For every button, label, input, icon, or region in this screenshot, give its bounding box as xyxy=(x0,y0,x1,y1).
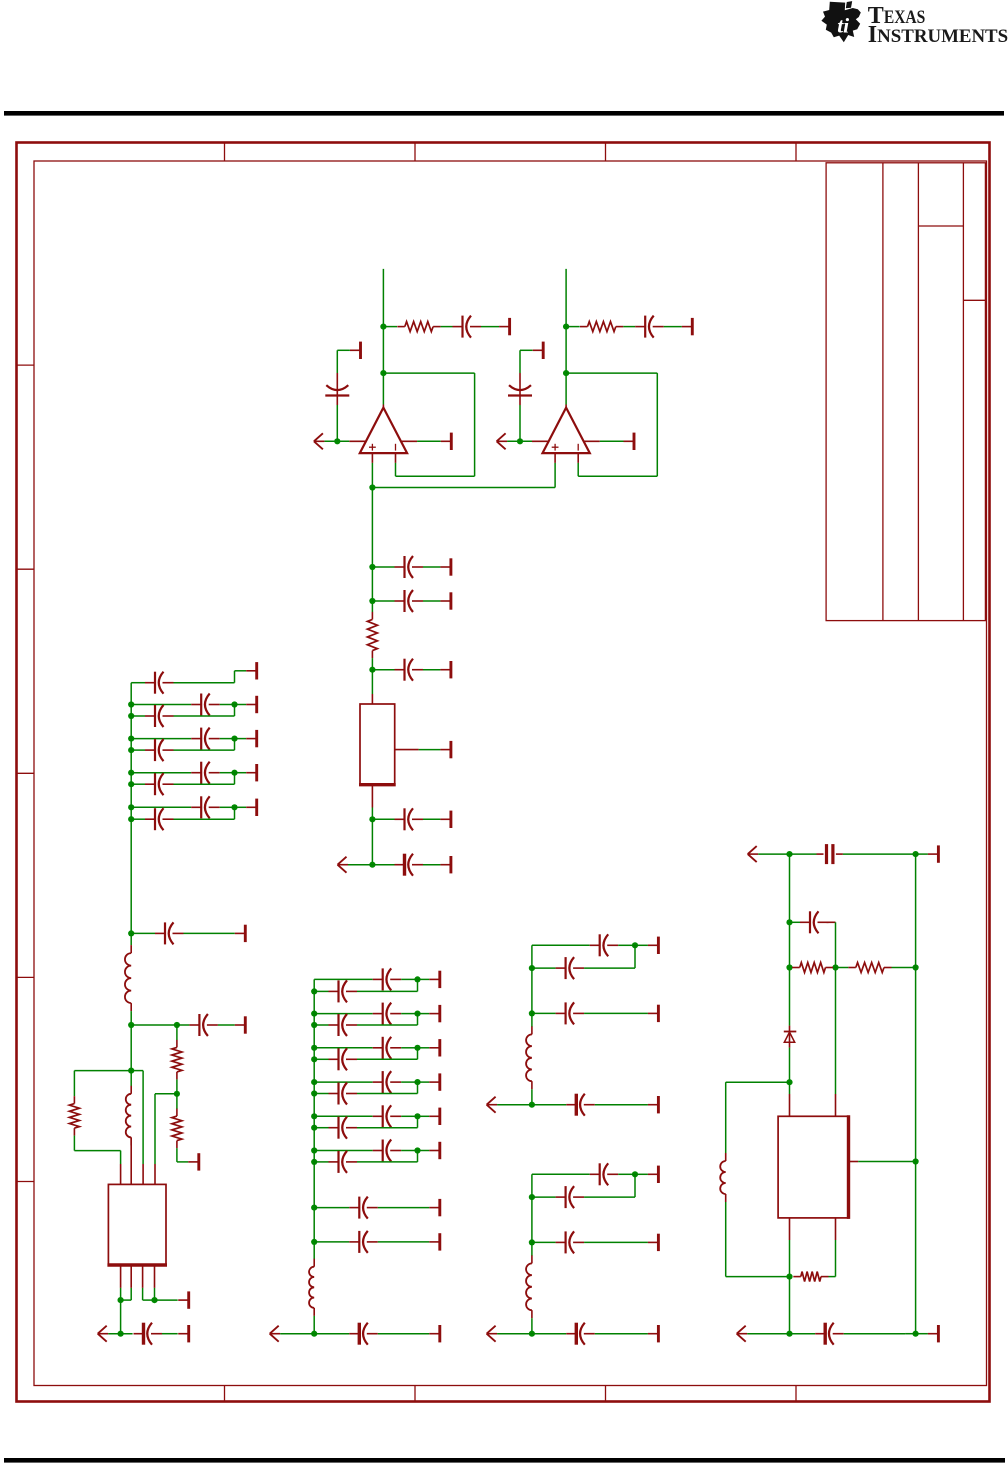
svg-text:INSTRUMENTS: INSTRUMENTS xyxy=(868,22,1008,48)
svg-text:ti: ti xyxy=(837,14,849,38)
